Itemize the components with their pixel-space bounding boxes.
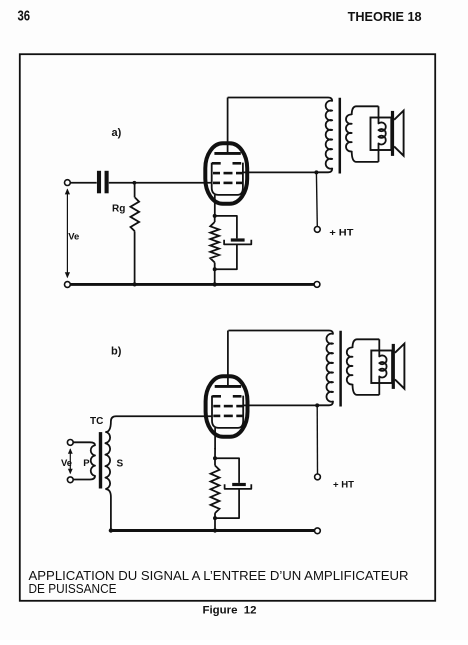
svg-text:+ HT: + HT xyxy=(333,480,354,491)
svg-text:APPLICATION DU SIGNAL A L’ENTR: APPLICATION DU SIGNAL A L’ENTREE D’UN AM… xyxy=(29,569,409,583)
svg-text:Ve: Ve xyxy=(68,232,79,243)
svg-text:Figure 12: Figure 12 xyxy=(203,604,257,616)
svg-text:a): a) xyxy=(112,127,122,139)
svg-text:Rg: Rg xyxy=(112,203,125,214)
svg-text:36: 36 xyxy=(18,8,31,25)
svg-text:+ HT: + HT xyxy=(329,228,353,239)
svg-text:THEORIE 18: THEORIE 18 xyxy=(348,9,422,24)
svg-text:TC: TC xyxy=(90,416,103,427)
svg-text:S: S xyxy=(117,458,124,469)
svg-text:P: P xyxy=(83,458,90,469)
svg-text:Ve: Ve xyxy=(61,458,72,469)
svg-text:DE PUISSANCE: DE PUISSANCE xyxy=(29,582,117,596)
svg-text:b): b) xyxy=(111,346,122,358)
